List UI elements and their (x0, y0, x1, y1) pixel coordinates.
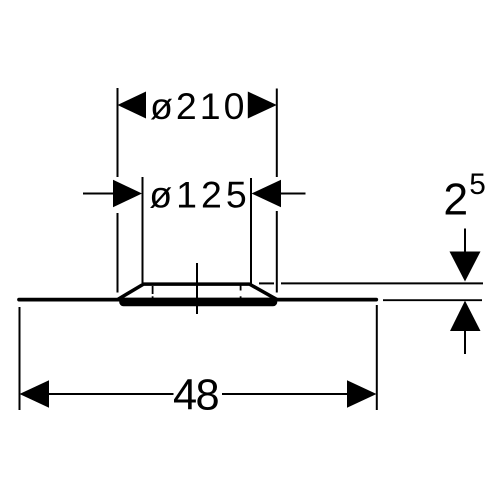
svg-text:2: 2 (443, 176, 468, 225)
svg-text:ø210: ø210 (150, 85, 247, 127)
svg-text:5: 5 (469, 168, 486, 201)
svg-text:48: 48 (173, 372, 219, 420)
svg-text:ø125: ø125 (149, 174, 250, 216)
